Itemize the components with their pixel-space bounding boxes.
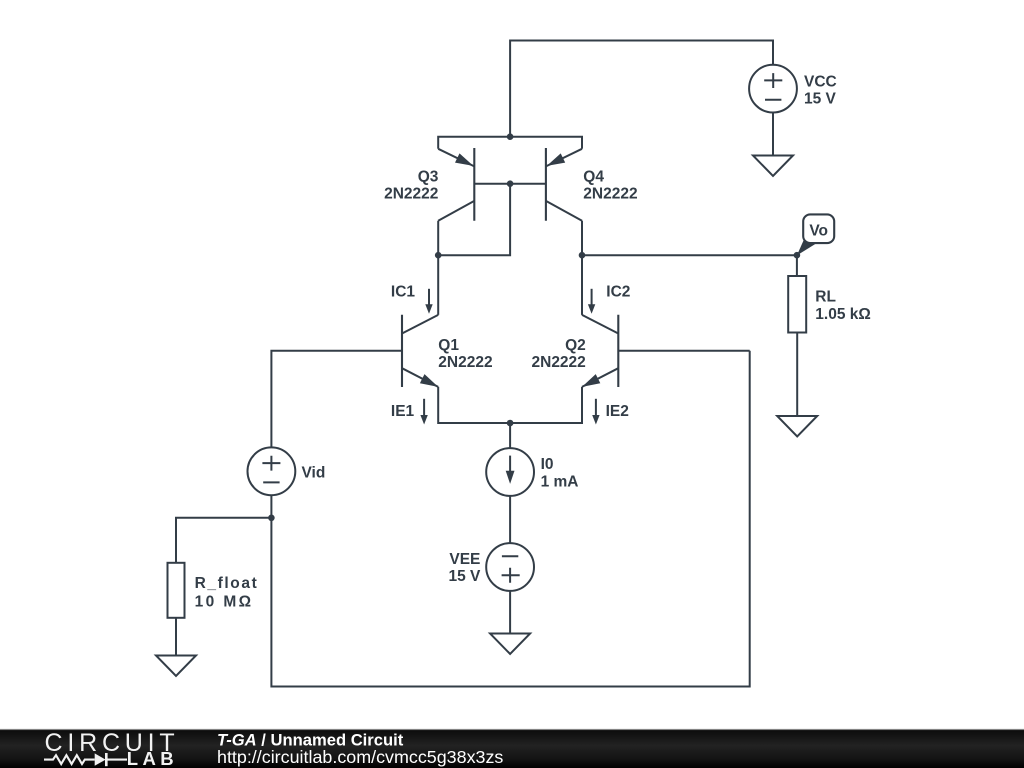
wire: I0 to VEE xyxy=(509,496,511,543)
wire: VEE to ground xyxy=(509,591,511,633)
svg-text:IE1: IE1 xyxy=(391,403,415,420)
svg-text:RL: RL xyxy=(815,289,836,306)
svg-text:15 V: 15 V xyxy=(449,568,482,585)
ground (below VCC) xyxy=(753,156,793,177)
svg-text:Q2: Q2 xyxy=(565,337,586,354)
svg-text:2N2222: 2N2222 xyxy=(583,185,637,202)
svg-text:Vo: Vo xyxy=(809,222,828,239)
wire: bottom feedback rail from Vid junction to Q2 base xyxy=(271,351,749,687)
wire: Q1 emitter to tail node xyxy=(438,387,510,423)
label VCC 15 V xyxy=(804,74,837,108)
transistor Q1 2N2222 (NPN) xyxy=(402,315,438,387)
svg-text:1 mA: 1 mA xyxy=(541,473,579,490)
current label IC2 with arrow xyxy=(588,284,631,314)
footer bar xyxy=(0,729,1024,768)
wire: Q2 base to right rail xyxy=(618,350,749,352)
wire: base rail Q3-Q4 xyxy=(474,183,546,185)
wire: Vid to bottom junction xyxy=(270,495,272,518)
label Q2 2N2222 xyxy=(532,337,586,371)
ground (below VEE) xyxy=(490,634,530,655)
svg-text:IC2: IC2 xyxy=(606,284,630,301)
resistor RL xyxy=(788,276,806,333)
wire: Vo node to RL xyxy=(796,255,798,276)
svg-text:2N2222: 2N2222 xyxy=(532,354,586,371)
label Q1 2N2222 xyxy=(438,337,492,371)
svg-text:I0: I0 xyxy=(541,456,554,473)
svg-text:2N2222: 2N2222 xyxy=(384,185,438,202)
svg-text:10 MΩ: 10 MΩ xyxy=(195,593,254,610)
wire: Q1 base to Vid xyxy=(271,351,402,448)
label VEE 15 V xyxy=(449,551,482,585)
label RL 1.05 kΩ xyxy=(815,289,871,324)
ground (below RL) xyxy=(777,416,817,437)
svg-text:IE2: IE2 xyxy=(606,403,629,420)
wire: tail node to I0 xyxy=(509,423,511,448)
wire: output net to Vo / RL xyxy=(582,254,797,256)
label Q3 2N2222 xyxy=(384,169,439,203)
label I0 1 mA xyxy=(541,456,579,490)
svg-text:Q1: Q1 xyxy=(438,337,459,354)
node: base rail junction xyxy=(507,180,514,187)
svg-text:LAB: LAB xyxy=(127,748,178,768)
node: Q4/Q2 collector output junction xyxy=(579,252,586,259)
node: Vid / R_float junction xyxy=(268,515,275,522)
node: Q3/Q1 collector junction xyxy=(435,252,442,259)
transistor Q3 2N2222 (PNP) xyxy=(438,148,474,221)
resistor R_float xyxy=(168,563,185,618)
wire: R_float to ground xyxy=(175,618,177,655)
net flag Vo xyxy=(797,214,834,255)
svg-text:15 V: 15 V xyxy=(804,91,837,108)
current label IE2 with arrow xyxy=(592,399,629,425)
label Q4 2N2222 xyxy=(583,169,637,203)
wire: Q3/Q4 emitter rail xyxy=(438,137,582,149)
wire: Q3 collector to Q1 collector xyxy=(437,221,439,315)
wire from Q3/Q4 emitter rail up and across to VCC xyxy=(510,41,773,137)
transistor Q2 2N2222 (NPN) xyxy=(582,315,618,387)
wire: Q2 emitter to tail node xyxy=(510,387,582,423)
ground (below R_float) xyxy=(156,656,196,677)
wire: RL to ground xyxy=(796,333,798,416)
node: output Vo junction xyxy=(794,252,801,259)
transistor Q4 2N2222 (PNP) xyxy=(546,148,582,221)
label R_float 10 MΩ xyxy=(195,575,259,610)
wire: base junction down to Q3 collector node (diode connection) xyxy=(438,184,510,256)
voltage source Vid xyxy=(248,447,296,495)
wire: Q4 collector down to Q2 collector xyxy=(581,221,583,315)
node: emitter tail junction xyxy=(507,420,514,427)
voltage source VCC xyxy=(749,65,797,113)
svg-text:VEE: VEE xyxy=(449,551,480,568)
svg-text:VCC: VCC xyxy=(804,74,837,91)
svg-text:2N2222: 2N2222 xyxy=(438,354,492,371)
current source I0 xyxy=(486,448,534,496)
current label IC1 with arrow xyxy=(391,284,433,314)
voltage source VEE (inverted) xyxy=(486,543,534,591)
current label IE1 with arrow xyxy=(391,399,428,425)
wire VCC to ground xyxy=(772,113,774,156)
svg-text:1.05 kΩ: 1.05 kΩ xyxy=(815,306,871,323)
svg-text:Q3: Q3 xyxy=(418,169,439,186)
svg-text:Vid: Vid xyxy=(302,464,326,481)
svg-text:R_float: R_float xyxy=(195,575,259,592)
svg-text:Q4: Q4 xyxy=(583,169,604,186)
CircuitLab logo xyxy=(44,729,179,768)
node: junction on emitter rail xyxy=(507,133,514,140)
svg-text:http://circuitlab.com/cvmcc5g3: http://circuitlab.com/cvmcc5g38x3zs xyxy=(217,747,503,767)
wire: junction to R_float xyxy=(176,518,271,563)
svg-text:IC1: IC1 xyxy=(391,284,416,301)
